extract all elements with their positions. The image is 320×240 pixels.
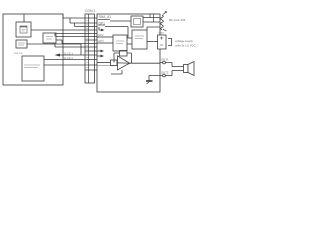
wire resistor to opamp — [116, 62, 119, 64]
wire rail step — [62, 14, 64, 18]
connector divider — [88, 14, 90, 83]
wire U1 out — [31, 29, 85, 31]
U1 icon glyph — [20, 26, 27, 28]
net wire to rf1 — [110, 20, 131, 22]
wire RST a — [56, 36, 85, 38]
wire pin7 — [62, 40, 85, 44]
wire U1 top to rail — [23, 14, 25, 22]
wire pin3 — [75, 23, 86, 27]
svg-text:GLCD 2: GLCD 2 — [63, 56, 74, 60]
OUT1 pin — [160, 62, 163, 64]
svg-text:GP1: GP1 — [99, 22, 106, 26]
display label lines — [24, 65, 40, 68]
battery box — [158, 35, 167, 49]
svg-text:SMA_A1: SMA_A1 — [99, 15, 112, 19]
wire RST b — [56, 39, 62, 41]
ground — [146, 80, 153, 82]
right board outline — [97, 14, 160, 92]
arrow stub b — [97, 55, 102, 57]
wire timer b — [97, 42, 113, 44]
connector pin rows — [85, 18, 95, 70]
ground slash — [147, 82, 150, 85]
wire display b — [44, 64, 85, 66]
vert joins top — [150, 14, 154, 22]
arrowhead a — [101, 50, 105, 53]
speaker wires — [166, 63, 184, 76]
wire rf1 a — [143, 17, 160, 19]
OUT2 circle — [163, 74, 166, 77]
net label underline 2 — [98, 24, 105, 26]
OUT1 circle — [163, 61, 166, 64]
RF1 inner — [134, 19, 141, 25]
antenna squiggle — [161, 15, 164, 30]
wire pin2 — [70, 18, 85, 23]
arrowhead in — [101, 29, 105, 32]
output wire — [130, 62, 161, 64]
svg-text:GLCD 1: GLCD 1 — [63, 52, 74, 56]
wire arrow to display — [57, 44, 85, 55]
arrowhead display — [55, 54, 61, 57]
timer label lines — [116, 41, 124, 44]
connector right stubs — [95, 18, 98, 70]
speaker body — [184, 65, 189, 73]
svg-text:cells 3x 1.5 VDC: cells 3x 1.5 VDC — [175, 44, 196, 48]
wire pin8 — [55, 44, 85, 48]
wire pin1 — [63, 17, 85, 19]
arrowhead b — [101, 55, 105, 58]
battery plug — [168, 39, 172, 46]
op-amp U2 — [118, 56, 130, 70]
feedback riser — [127, 53, 132, 63]
U1 icon text — [22, 30, 26, 32]
svg-text:CON 1: CON 1 — [85, 9, 95, 13]
X1 label lines — [18, 43, 25, 45]
wire timer to rf2 b — [127, 43, 132, 45]
svg-text:RF-Link 433: RF-Link 433 — [169, 18, 186, 22]
arrow stub a — [97, 50, 102, 52]
left board outline — [3, 14, 63, 85]
svg-text:GP2: GP2 — [98, 33, 104, 37]
RST label lines — [46, 37, 53, 40]
arrow in — [99, 27, 103, 30]
svg-text:OUT1: OUT1 — [161, 58, 169, 62]
connector CON1 — [85, 14, 95, 83]
ground drop — [148, 76, 150, 82]
wire rf2 right — [147, 41, 158, 43]
block U1 (icon box) — [16, 22, 31, 37]
block X1 — [16, 40, 27, 48]
speaker cone — [188, 62, 194, 76]
net label underline 1 — [98, 19, 110, 21]
feedback left leg — [114, 53, 120, 63]
connector pin numbers — [86, 21, 87, 68]
opamp input resistor — [111, 60, 118, 66]
battery marks — [160, 37, 163, 46]
timer box — [113, 35, 127, 51]
U1 inner icon — [20, 26, 27, 33]
antenna arrow — [163, 12, 167, 15]
block RST — [43, 33, 56, 43]
wire timer to rf2 a — [127, 37, 132, 39]
opamp lower stub — [111, 70, 122, 74]
svg-text:xtal osc: xtal osc — [14, 51, 23, 55]
wire rf2 top — [147, 27, 160, 30]
wire display a — [44, 59, 85, 61]
net label wire — [105, 27, 128, 39]
wire timer a — [97, 36, 113, 38]
opamp input wire 2 — [97, 64, 118, 66]
RF box 2 — [132, 30, 147, 49]
wire pin5 — [55, 34, 85, 37]
svg-text:GP3: GP3 — [98, 39, 104, 43]
feedback box — [120, 51, 128, 57]
display block — [22, 56, 44, 81]
svg-text:OUT2: OUT2 — [161, 71, 169, 75]
opamp input wire — [97, 62, 111, 64]
svg-text:4.5V: 4.5V — [159, 31, 165, 35]
wire rf1 b — [143, 21, 160, 23]
opamp middle line — [118, 62, 130, 64]
svg-text:voltage supply: voltage supply — [175, 39, 193, 43]
wire X1 out — [27, 43, 81, 45]
RF2 label lines — [135, 36, 144, 39]
RF box 1 — [131, 16, 143, 27]
antenna foot — [163, 29, 167, 31]
OUT2 wire — [149, 75, 163, 77]
